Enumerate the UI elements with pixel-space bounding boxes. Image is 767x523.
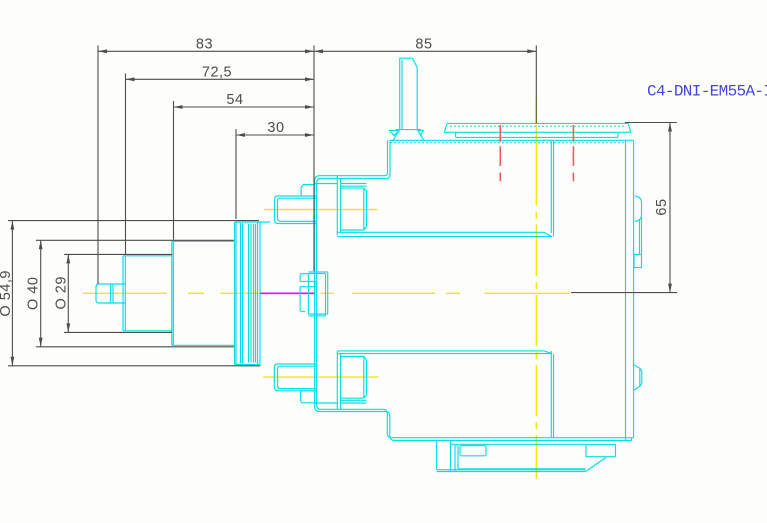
extension line x173.5	[173, 101, 175, 240]
right side lower bump	[634, 365, 642, 391]
lower-left bearing boss	[274, 364, 316, 391]
terminal stud	[400, 58, 418, 129]
svg-text:30: 30	[267, 120, 284, 136]
centerline upper boss	[264, 209, 377, 211]
right side upper tab	[634, 196, 642, 268]
body top edge	[390, 140, 634, 143]
magenta highlighted axis segment	[260, 292, 315, 294]
upper internal boss	[341, 188, 367, 230]
svg-text:83: 83	[196, 36, 213, 52]
svg-text:O 40: O 40	[26, 277, 42, 310]
upper-left bearing boss	[275, 196, 317, 224]
block above upper-left boss	[301, 185, 314, 196]
svg-text:C4-DNI-EM55A-I: C4-DNI-EM55A-I	[647, 83, 767, 101]
extension overlap olive segment	[535, 97, 537, 124]
extension line x98	[97, 46, 99, 285]
body bottom-left step line	[315, 402, 339, 404]
diameter dimension 29	[64, 254, 172, 332]
bottom connector block	[437, 441, 616, 472]
extension line x314 shared	[313, 46, 315, 272]
svg-text:O 54,9: O 54,9	[0, 270, 14, 317]
lower internal boss	[341, 357, 367, 399]
extension line x125.5	[125, 74, 127, 255]
svg-text:54: 54	[226, 92, 243, 108]
dimension line 72,5	[126, 77, 315, 81]
shaft keyway clip	[300, 272, 328, 316]
extension line x536.3 to centerline	[535, 46, 537, 98]
plate lower layer	[456, 132, 618, 137]
dimension line 83 and 85	[98, 49, 536, 53]
diameter dimension 40	[36, 240, 234, 346]
terminal stud base	[389, 130, 423, 140]
centerline lower boss	[263, 376, 378, 378]
body left edge and top-left outline step	[315, 140, 634, 440]
svg-text:72,5: 72,5	[202, 64, 232, 80]
svg-text:65: 65	[654, 198, 670, 215]
shaft flange dia 54,9 washer stack	[235, 222, 271, 365]
extension line x236	[235, 129, 237, 219]
centerline main horizontal axis	[83, 292, 570, 294]
dimension line 30	[236, 133, 314, 137]
inner cavity upper	[337, 141, 553, 237]
body right edge	[626, 140, 634, 440]
top mounting plate	[444, 123, 631, 132]
red witness marks on plate	[500, 125, 573, 181]
shaft tip cap	[96, 284, 125, 303]
diameter dimension 54,9	[8, 221, 261, 366]
block below lower-left boss	[301, 391, 315, 403]
dimension line 54	[174, 105, 315, 109]
centerline vertical axis	[535, 125, 537, 479]
shaft section dia 40	[172, 241, 235, 345]
shaft section dia 29	[123, 256, 172, 331]
svg-text:85: 85	[415, 36, 432, 52]
svg-text:O 29: O 29	[53, 276, 69, 309]
dimension 65 right side	[571, 123, 677, 293]
inner cavity lower	[337, 351, 553, 438]
